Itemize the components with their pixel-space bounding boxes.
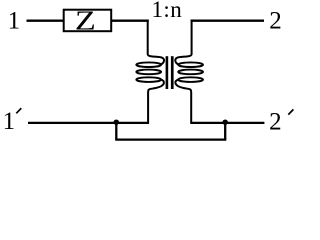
wire port 1' to left junction — [28, 122, 117, 124]
prime mark of 2' — [288, 109, 293, 114]
impedance Z1 box — [64, 10, 111, 32]
wire Z box to primary top corner — [111, 20, 149, 22]
wire primary bottom vertical — [148, 80, 164, 124]
transformer T1 secondary winding L2 — [178, 62, 203, 81]
transformer core bar right — [171, 56, 174, 89]
wire primary top vertical — [148, 20, 164, 65]
prime mark of 1' — [16, 108, 21, 113]
wire secondary bottom to right junction — [191, 122, 225, 124]
wire left drop — [115, 123, 117, 140]
wire port1 to Z box — [27, 20, 65, 22]
wire right drop — [224, 123, 226, 140]
wire secondary top vertical — [175, 20, 191, 65]
svg-text:2: 2 — [269, 8, 282, 35]
svg-text:Z: Z — [75, 6, 96, 36]
wire bottom bypass rail — [115, 138, 226, 140]
svg-text:1: 1 — [3, 108, 16, 135]
junction dot left — [114, 119, 120, 125]
svg-text:1: 1 — [8, 8, 21, 35]
wire secondary bottom vertical — [175, 80, 191, 124]
svg-text:2: 2 — [269, 109, 282, 136]
transformer T1 primary winding L1 — [136, 62, 161, 81]
wire right junction to port 2' — [225, 122, 264, 124]
wire left junction to primary bottom — [115, 122, 149, 124]
svg-text:1:n: 1:n — [152, 0, 183, 22]
transformer core bar left — [166, 56, 169, 89]
wire secondary top corner to port 2 — [191, 20, 265, 22]
junction dot right — [222, 119, 228, 125]
